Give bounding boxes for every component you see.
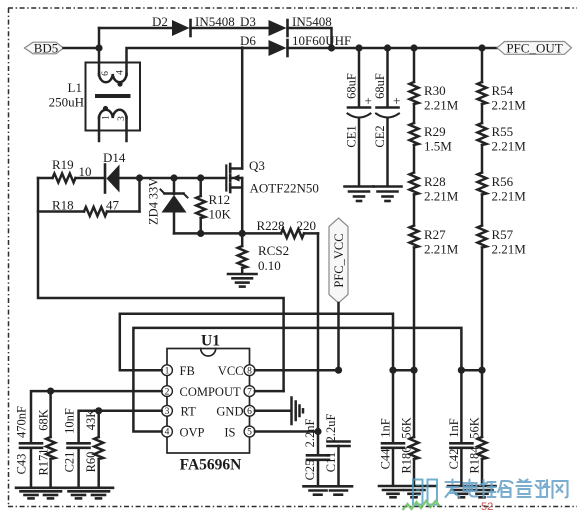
node R12 top (197, 174, 204, 181)
L1 pin3 stub (125, 117, 128, 141)
svg-text:IS: IS (224, 426, 235, 440)
node PFC_VCC (329, 218, 348, 303)
capacitor C25 (303, 419, 329, 486)
capacitor C42 (447, 370, 472, 486)
ground CE2 (374, 187, 402, 202)
node C44 top (389, 367, 396, 374)
pin 2 (162, 386, 173, 398)
svg-text:10K: 10K (209, 207, 232, 222)
wire pin7 stub (255, 390, 284, 393)
wire OVP filter bus (461, 369, 482, 372)
pin 8 (244, 365, 255, 377)
resistor R27 (410, 226, 459, 257)
wire R54-R55 (481, 104, 484, 123)
node R184/R57 (478, 367, 485, 374)
svg-text:RT: RT (181, 405, 197, 419)
resistor R55 (478, 123, 527, 154)
ground C42/R184 (448, 486, 496, 497)
resistor R56 (478, 173, 527, 204)
wire R29-R28 (413, 145, 416, 173)
node source/RCS2 (239, 230, 246, 237)
ground C44/R186 (379, 486, 436, 497)
node ZD4 top (170, 174, 177, 181)
resistor R228 (257, 218, 319, 238)
watermark logo book (403, 480, 440, 511)
svg-text:4: 4 (116, 70, 126, 75)
resistor R30 (410, 48, 459, 113)
svg-text:C44: C44 (379, 448, 393, 470)
wire top branch to D2 (99, 27, 172, 30)
node R30 chain top (410, 44, 417, 51)
svg-text:6: 6 (247, 407, 252, 417)
svg-text:R18: R18 (52, 198, 74, 213)
svg-text:8: 8 (247, 366, 252, 376)
diode D3 (240, 14, 332, 36)
wire source bus (174, 232, 281, 235)
svg-text:2.2uF: 2.2uF (324, 414, 338, 443)
svg-text:C11: C11 (324, 452, 338, 472)
svg-text:AOTF22N50: AOTF22N50 (250, 181, 319, 196)
wire pin6 GND stub (255, 410, 291, 413)
svg-text:GND: GND (216, 405, 243, 419)
transistor Q3 (226, 158, 319, 196)
resistor R28 (410, 173, 459, 204)
svg-text:10nF: 10nF (63, 408, 77, 434)
wire FB filter bus (393, 369, 414, 372)
wire R228 down to IS (317, 233, 320, 455)
op-amp U1 (FA5696N controller) (167, 333, 250, 474)
svg-text:R55: R55 (492, 124, 514, 139)
node R18 joins gate (136, 174, 143, 181)
svg-text:CE1: CE1 (345, 125, 359, 147)
ground C43/R171/C21/R60 (16, 488, 113, 499)
pin 1 (162, 365, 173, 377)
wire pin5 IS stub (255, 430, 318, 433)
diode D6 (240, 33, 351, 56)
svg-text:ZD4: ZD4 (147, 201, 161, 225)
svg-text:56K: 56K (468, 417, 482, 439)
pin 4 (162, 426, 173, 438)
resistor R57 (478, 226, 527, 257)
svg-text:RCS2: RCS2 (258, 243, 289, 258)
wire gate bus (120, 177, 227, 180)
svg-text:R12: R12 (209, 192, 231, 207)
node junction at BD5/L1/D2 (95, 44, 102, 51)
wire R56-R57 (481, 195, 484, 226)
svg-text:C21: C21 (63, 452, 77, 473)
wire R55-R56 (481, 145, 484, 173)
svg-text:1.5M: 1.5M (424, 139, 452, 154)
wire R30-R29 (413, 104, 416, 123)
svg-text:C25: C25 (303, 460, 317, 481)
svg-text:43K: 43K (84, 409, 98, 431)
svg-text:CE2: CE2 (373, 125, 387, 147)
resistor RCS2 (238, 233, 289, 273)
svg-text:PFC_VCC: PFC_VCC (332, 233, 346, 287)
svg-text:2.21M: 2.21M (492, 189, 527, 204)
capacitor C21 (63, 408, 90, 487)
node IS/R228/C25 (314, 428, 321, 435)
wire R28-R27 (413, 195, 416, 226)
capacitor CE1 (345, 44, 372, 185)
resistor R54 (478, 48, 527, 113)
svg-text:OVP: OVP (180, 426, 205, 440)
wire D2 to D3 (191, 27, 269, 30)
L1 secondary winding (pins 1-3) (99, 110, 127, 118)
resistor R60 (84, 409, 103, 488)
svg-text:D2: D2 (152, 14, 168, 29)
svg-text:68K: 68K (37, 409, 51, 431)
node R186/R27 (410, 367, 417, 374)
resistor R12 (196, 178, 231, 233)
svg-text:250uH: 250uH (49, 95, 84, 110)
svg-text:0.10: 0.10 (258, 258, 281, 273)
svg-text:47: 47 (106, 198, 120, 213)
svg-text:R228: R228 (257, 218, 285, 233)
svg-text:BD5: BD5 (34, 41, 59, 56)
svg-text:FB: FB (180, 364, 195, 378)
svg-text:1: 1 (102, 115, 112, 120)
svg-text:R27: R27 (424, 227, 446, 242)
wire pin8 VCC stub (255, 369, 339, 372)
pin 6 (244, 405, 255, 417)
svg-text:2.21M: 2.21M (424, 242, 459, 257)
svg-text:68uF: 68uF (345, 73, 359, 99)
wire left rail (38, 178, 284, 391)
svg-text:U1: U1 (201, 333, 220, 350)
svg-text:4: 4 (165, 428, 170, 438)
svg-text:6: 6 (101, 71, 111, 76)
svg-text:3: 3 (165, 407, 170, 417)
svg-text:+: + (393, 93, 400, 108)
inductor L1 (49, 63, 140, 142)
svg-text:PFC_OUT: PFC_OUT (506, 40, 562, 55)
svg-text:FA5696N: FA5696N (180, 457, 242, 474)
wire junction up and L1 pin6 leg (98, 28, 101, 75)
svg-text:2.21M: 2.21M (492, 242, 527, 257)
resistor R18 (38, 178, 140, 216)
pin 3 (162, 405, 173, 417)
svg-text:C43: C43 (15, 454, 29, 475)
wire R27 down to FB divider node (413, 248, 416, 371)
node PFC_OUT (497, 40, 572, 55)
ground RCS2 (228, 274, 257, 287)
svg-text:D3: D3 (240, 14, 256, 29)
diode D14 (103, 150, 126, 193)
svg-text:R60: R60 (84, 452, 98, 473)
svg-text:Q3: Q3 (249, 158, 265, 173)
capacitor CE2 (373, 44, 400, 185)
svg-text:7: 7 (247, 387, 252, 397)
wire Q3 source down (241, 178, 244, 233)
svg-text:33V: 33V (147, 178, 161, 200)
svg-text:2.2nF: 2.2nF (303, 419, 317, 448)
capacitor C44 (379, 370, 405, 486)
wire L1 pin4 corner to D6 (127, 48, 269, 75)
wire pin2 COMP to C43/R171 (31, 391, 162, 443)
resistor R171 (37, 391, 56, 487)
node VCC/PFC_VCC/C11 (335, 367, 342, 374)
resistor R19 (38, 157, 92, 183)
pin 7 (244, 386, 255, 398)
svg-text:56K: 56K (400, 417, 414, 439)
capacitor C11 (324, 414, 350, 486)
wire R57 down to OVP divider node (481, 248, 484, 371)
wire pin3 RT to C21/R60 (79, 411, 162, 443)
wire pin1 FB loop to divider tap (120, 314, 393, 370)
svg-text:D14: D14 (103, 150, 126, 165)
watermark text (stylized) (446, 480, 568, 499)
svg-text:2.21M: 2.21M (424, 189, 459, 204)
ground pin6 (rotated) (292, 398, 304, 425)
diode D2 (152, 14, 235, 36)
node C42 top (458, 367, 465, 374)
pin 5 (244, 426, 255, 438)
wire PFC_VCC down to VCC rail (337, 303, 340, 370)
wire pin4 OVP loop to divider tap (133, 328, 461, 432)
svg-text:R57: R57 (492, 227, 514, 242)
svg-text:R56: R56 (492, 174, 514, 189)
svg-text:1nF: 1nF (379, 418, 393, 438)
wire output rail to PFC_OUT (288, 47, 498, 50)
ground C25/C11 (304, 486, 353, 494)
node R54 chain top (478, 44, 485, 51)
svg-text:68uF: 68uF (373, 73, 387, 99)
L1 primary winding (pins 6-4) (99, 74, 127, 82)
svg-text:R186: R186 (400, 446, 414, 473)
zener ZD4 (147, 178, 188, 234)
svg-text:52: 52 (481, 501, 493, 513)
svg-text:1nF: 1nF (447, 418, 461, 438)
svg-text:R29: R29 (424, 124, 446, 139)
node R60 top (95, 407, 102, 414)
resistor R186 (400, 370, 419, 486)
node junction D3 branch joins output wire (328, 44, 335, 51)
ground CE1 (345, 187, 374, 202)
svg-text:10F60UHF: 10F60UHF (292, 33, 351, 48)
svg-text:C42: C42 (447, 449, 461, 470)
node BD5 (25, 41, 64, 56)
svg-text:2.21M: 2.21M (492, 139, 527, 154)
svg-text:D6: D6 (240, 33, 256, 48)
svg-text:R28: R28 (424, 174, 446, 189)
svg-text:L1: L1 (68, 80, 82, 95)
svg-text:220: 220 (297, 218, 317, 233)
svg-text:2.21M: 2.21M (492, 98, 527, 113)
svg-text:5: 5 (247, 428, 252, 438)
wire BD5 to junction (64, 47, 100, 50)
node R12 bottom (197, 230, 204, 237)
svg-text:+: + (365, 93, 372, 108)
node R171 top (47, 388, 54, 395)
svg-text:R19: R19 (52, 157, 74, 172)
resistor R184 (468, 370, 487, 486)
svg-text:R171: R171 (37, 448, 51, 475)
svg-text:COMPOUT: COMPOUT (180, 385, 241, 399)
svg-text:R54: R54 (492, 83, 514, 98)
svg-text:470nF: 470nF (15, 406, 29, 438)
wire Q3 drain up to boost rail (241, 48, 244, 169)
svg-text:R30: R30 (424, 83, 446, 98)
capacitor C43 (15, 406, 43, 488)
wire D3 cathode to corner down (288, 28, 332, 48)
wire R19 to D14 (76, 177, 106, 180)
L1 core (97, 94, 129, 98)
L1 pin1 stub (98, 117, 101, 141)
svg-text:1: 1 (165, 366, 170, 376)
resistor R29 (410, 123, 453, 154)
svg-text:R184: R184 (468, 446, 482, 474)
svg-text:2: 2 (165, 387, 170, 397)
svg-text:2.21M: 2.21M (424, 98, 459, 113)
svg-text:VCC: VCC (218, 364, 244, 378)
